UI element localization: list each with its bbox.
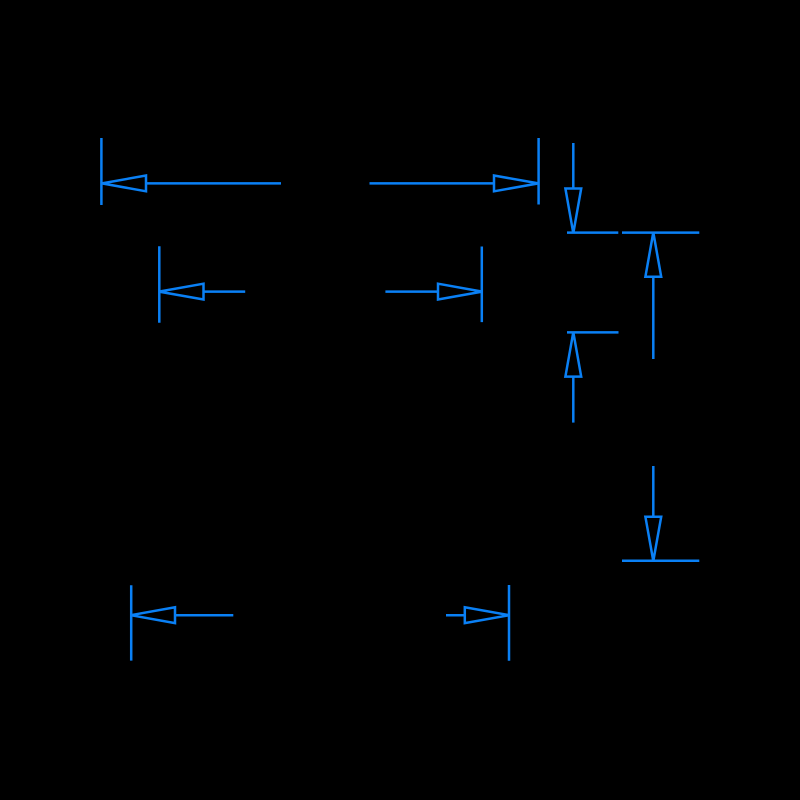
- dimension DIM1 arrowhead left: [102, 176, 146, 192]
- part outline: black plate: [100, 138, 699, 661]
- dimension DIM4 line segment left: [204, 290, 246, 293]
- dimension DIM1 extension line right (x=538.6): [537, 138, 540, 205]
- dimension DIM1 extension line left (x=101.4): [100, 138, 103, 205]
- dimension DIM5 arrowhead right: [465, 607, 510, 623]
- dimension DIM2 lower tail line: [572, 377, 575, 423]
- dimension DIM4 extension line left (x=159.3): [158, 246, 161, 323]
- dimension DIM2 extension line top (y=232.6): [567, 231, 618, 234]
- dimension DIM4 arrowhead right: [438, 284, 482, 300]
- dimension DIM4 line segment right: [385, 290, 438, 293]
- dimension DIM1 arrowhead right: [494, 176, 538, 192]
- dimension DIM2 upper tail line (x=573.3): [572, 143, 575, 189]
- dimension DIM1 line segment right: [370, 182, 495, 185]
- dimension DIM5 arrowhead left: [131, 607, 175, 623]
- dimension DIM2 extension line bottom (y=332.4): [567, 331, 619, 334]
- dimension DIM3 extension line top (y=232.6): [622, 231, 699, 234]
- dimension DIM3 arrowhead down: [645, 517, 661, 561]
- dimension DIM4 arrowhead left: [159, 284, 204, 300]
- dimension DIM2 arrowhead down: [565, 189, 581, 234]
- dimension DIM2 arrowhead up: [565, 332, 581, 376]
- dimension DIM5 line segment left: [175, 614, 233, 617]
- dimension DIM3 line segment lower: [652, 466, 655, 517]
- dimension DIM3 arrowhead up: [645, 232, 661, 276]
- dimension DIM5 extension line left (x=131.2): [130, 585, 133, 660]
- dimension DIM3 extension line bottom (y=560.7): [622, 559, 699, 562]
- dimension DIM5 extension line right (x=509): [508, 585, 511, 661]
- dimension DIM1 line segment left: [146, 182, 281, 185]
- dimension DIM3 line segment upper: [652, 277, 655, 359]
- dimension DIM4 extension line right (x=481.8): [481, 247, 484, 323]
- dimension DIM5 line segment right: [446, 614, 465, 617]
